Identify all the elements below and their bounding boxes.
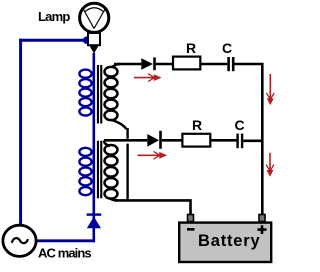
transformer primary winding (blue, bottom group) bbox=[79, 148, 91, 195]
label R (branch 2) bbox=[192, 117, 202, 133]
capacitor C (top branch) bbox=[227, 57, 234, 71]
wire (R to C, branch 2) bbox=[210, 139, 236, 142]
wire (top branch horizontal, secondary to D1) bbox=[114, 63, 141, 66]
wire (blue top horizontal from left riser to lamp base) bbox=[19, 39, 88, 42]
wire (C to right corner, top branch, then down to battery +) bbox=[235, 64, 263, 215]
label Lamp bbox=[38, 9, 70, 24]
wire (C to right vertical, branch 2) bbox=[243, 140, 261, 143]
AC source bbox=[3, 225, 36, 256]
battery bbox=[179, 215, 271, 263]
svg-text:C: C bbox=[222, 40, 232, 56]
wire (D2 to R, branch 2) bbox=[162, 139, 183, 142]
label AC mains bbox=[38, 246, 91, 261]
wire (center-tap vertical, upper part above crossover break) bbox=[126, 128, 128, 139]
label C (branch 2) bbox=[235, 117, 245, 133]
svg-text:R: R bbox=[192, 117, 202, 133]
label Battery bbox=[198, 232, 260, 250]
current arrow (red, under D2) bbox=[138, 151, 168, 159]
wire (center-tap vertical, lower part, to bottom rail) bbox=[126, 144, 128, 201]
junction (blue dot at lamp base) bbox=[83, 37, 90, 44]
wire (branch 2 horizontal, secondary to D2) bbox=[104, 139, 147, 142]
wire (blue bottom horizontal from AC source to diode column) bbox=[36, 239, 95, 242]
svg-text:R: R bbox=[186, 40, 196, 56]
wire (bottom rail to battery minus riser) bbox=[115, 200, 191, 215]
svg-text:C: C bbox=[235, 117, 245, 133]
label C (top branch) bbox=[222, 40, 232, 56]
transformer core (lower segment, two bars) bbox=[97, 141, 102, 199]
svg-text:Lamp: Lamp bbox=[38, 9, 70, 24]
diode D3 (blue, in primary return) bbox=[87, 213, 102, 228]
resistor R (branch 2) bbox=[182, 134, 210, 147]
transformer secondary winding (black, top group) bbox=[105, 64, 127, 129]
current arrow (red, under D1) bbox=[134, 74, 162, 82]
transformer primary winding (blue, top group) bbox=[79, 70, 91, 116]
diode D2 bbox=[147, 131, 162, 149]
svg-text:Battery: Battery bbox=[198, 232, 260, 250]
capacitor C (branch 2) bbox=[236, 134, 243, 149]
wire (D1 to R) bbox=[156, 63, 173, 66]
lamp bbox=[80, 3, 109, 53]
wire (blue vertical spine of primary, lamp to bottom corner) bbox=[93, 53, 96, 242]
diode D1 bbox=[141, 57, 156, 70]
transformer secondary winding (black, bottom group) bbox=[104, 141, 118, 201]
resistor R (top branch) bbox=[173, 57, 200, 70]
label R (top branch) bbox=[186, 40, 196, 56]
svg-text:AC mains: AC mains bbox=[38, 246, 91, 261]
transformer core (upper segment, two bars) bbox=[97, 65, 102, 124]
wire (R to C, top branch) bbox=[200, 63, 227, 66]
wire (blue left vertical riser) bbox=[19, 39, 22, 225]
current arrow (red, right rail lower) bbox=[266, 153, 274, 177]
current arrow (red, right rail upper) bbox=[266, 74, 274, 105]
